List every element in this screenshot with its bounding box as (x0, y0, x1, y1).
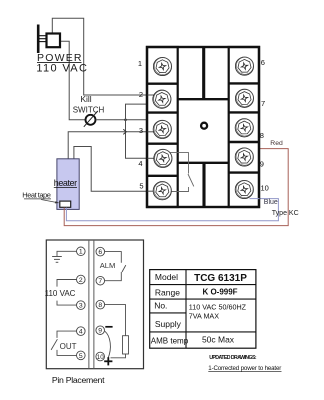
left terminal column (147, 47, 178, 207)
center hole (201, 123, 207, 129)
svg-text:TCG 6131P: TCG 6131P (194, 273, 247, 284)
svg-text:7VA MAX: 7VA MAX (189, 312, 219, 321)
svg-text:1-Corrected power to heater: 1-Corrected power to heater (208, 365, 281, 372)
terminal 7 (235, 89, 253, 107)
svg-text:1: 1 (138, 59, 142, 68)
svg-text:8: 8 (98, 302, 102, 309)
svg-text:3: 3 (139, 126, 143, 135)
blue wire stub from terminal 10 (250, 198, 260, 200)
wire pp pin8 to resistor (105, 305, 126, 336)
heat tape (60, 201, 71, 207)
wire stub into terminal 2 (148, 94, 159, 96)
svg-text:7: 7 (261, 99, 265, 108)
wire pp pin7 (105, 272, 122, 281)
svg-text:9: 9 (98, 328, 102, 335)
wire heater to pin 5 (74, 147, 154, 192)
pp pin 4 (77, 327, 86, 336)
pin placement box (46, 240, 143, 369)
thermocouple curve pin9 to pin10 (105, 331, 111, 359)
OUT contact lever (51, 339, 57, 350)
junction chevron heater wire x bus (123, 129, 126, 134)
svg-text:2: 2 (79, 277, 83, 284)
svg-text:9: 9 (260, 160, 264, 169)
svg-text:UPDATED DRAWINGS:: UPDATED DRAWINGS: (209, 355, 257, 361)
svg-text:4: 4 (138, 159, 142, 168)
power plug prongs (39, 35, 47, 37)
wire kill switch to pin 3 (96, 119, 149, 121)
svg-text:Type KC: Type KC (272, 210, 299, 217)
svg-text:Heat tape: Heat tape (22, 191, 51, 200)
terminal 4 (154, 149, 172, 167)
svg-text:Supply: Supply (155, 319, 182, 329)
wire resistor to pin10 (111, 354, 126, 358)
svg-text:110 VAC: 110 VAC (45, 289, 76, 298)
svg-text:Range: Range (155, 288, 180, 298)
wire pp pin6 (105, 252, 122, 263)
svg-text:SWITCH: SWITCH (73, 106, 105, 115)
svg-text:5: 5 (79, 353, 83, 360)
thermocouple plus mark (104, 360, 112, 362)
wire stub into terminal 4 (148, 157, 160, 159)
blue thermocouple wire (66, 199, 278, 221)
wire pp pin3 (57, 301, 77, 306)
red thermocouple wire (64, 149, 288, 226)
svg-text:Model: Model (155, 272, 178, 282)
terminal 8 (235, 119, 253, 137)
wire stub into terminal 3 (148, 131, 159, 133)
svg-text:OUT: OUT (60, 342, 77, 351)
resistor (123, 336, 129, 354)
wire heater to pin 3 (68, 132, 153, 159)
spec table (150, 270, 256, 349)
svg-text:Kill: Kill (80, 94, 91, 104)
svg-text:6: 6 (261, 58, 265, 67)
bus wire bracket to pin2 area and pin 4 (126, 104, 156, 158)
svg-text:Blue: Blue (264, 199, 278, 206)
ground (52, 256, 62, 258)
svg-text:No.: No. (154, 301, 167, 311)
svg-text:Red: Red (270, 140, 283, 147)
wire pp pin2 (57, 280, 77, 287)
socket center bottom section (178, 162, 229, 164)
wire pp pin1 to ground (57, 251, 77, 256)
svg-text:5: 5 (139, 182, 143, 191)
svg-text:110 VAC 50/60HZ: 110 VAC 50/60HZ (189, 303, 247, 312)
terminal 1 (153, 57, 171, 75)
pp pin 6 (96, 247, 105, 256)
terminal 3 (153, 120, 171, 138)
wire stub into terminal 5 (148, 190, 159, 192)
svg-text:3: 3 (79, 303, 83, 310)
svg-text:ALM: ALM (100, 261, 116, 270)
terminal 10 (235, 180, 253, 198)
terminal 5 (153, 182, 171, 200)
power plug wall bar (37, 25, 40, 54)
thermocouple minus mark (105, 326, 112, 328)
pp pin 8 (96, 300, 105, 309)
pp pin 7 (96, 276, 105, 285)
junction dot kill wire x bus (124, 119, 127, 122)
label arrow (41, 200, 58, 203)
terminal 6 (235, 57, 253, 75)
svg-text:K O-999F: K O-999F (202, 288, 237, 297)
svg-text:50c Max: 50c Max (202, 335, 235, 345)
relay socket outline (147, 47, 259, 207)
pp pin 1 (77, 247, 86, 256)
wire power box to kill switch (60, 41, 85, 120)
svg-text:heater: heater (54, 178, 77, 188)
svg-text:110 VAC: 110 VAC (36, 63, 87, 75)
pp pin 9 (96, 326, 105, 335)
kill switch (86, 115, 96, 125)
svg-text:4: 4 (79, 329, 83, 336)
wire pp pin5 (57, 350, 77, 356)
svg-text:2: 2 (139, 90, 143, 99)
power plug body (47, 34, 61, 48)
wire pp pin4 (57, 331, 77, 338)
internal output contact pins 4-5 (166, 153, 189, 174)
pp pin 10 (96, 352, 105, 361)
svg-text:Pin Placement: Pin Placement (52, 375, 105, 385)
separator bars (88, 241, 90, 369)
svg-text:1: 1 (79, 249, 83, 256)
svg-text:6: 6 (98, 249, 102, 256)
svg-text:7: 7 (98, 278, 102, 285)
socket center top section (178, 98, 229, 100)
pp pin 5 (77, 351, 86, 360)
terminal 9 (235, 148, 253, 166)
svg-text:AMB temp: AMB temp (151, 337, 189, 346)
right terminal column (229, 47, 259, 207)
heater (57, 159, 79, 210)
wire power box top to pin 2 (52, 18, 153, 95)
svg-text:10: 10 (261, 184, 269, 193)
pp pin 2 (77, 275, 86, 284)
svg-text:8: 8 (260, 131, 264, 140)
pp pin 3 (77, 301, 86, 310)
terminal 2 (153, 90, 171, 108)
ALM contact lever (122, 265, 126, 272)
svg-text:10: 10 (97, 354, 104, 361)
